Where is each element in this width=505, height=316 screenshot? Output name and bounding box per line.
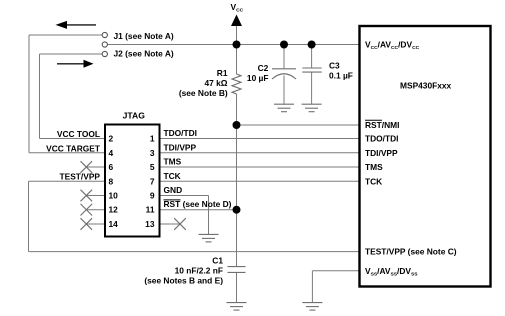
connector J2 circle xyxy=(102,51,107,56)
svg-text:9: 9 xyxy=(150,191,155,201)
ground C2 xyxy=(274,104,294,112)
svg-text:TMS: TMS xyxy=(164,157,182,167)
wire pin6 stub xyxy=(86,166,104,168)
svg-text:TCK: TCK xyxy=(365,176,382,186)
wire RST vertical rail xyxy=(236,125,238,267)
svg-text:TDI/VPP: TDI/VPP xyxy=(365,148,398,158)
wire GND horizontal xyxy=(161,195,209,197)
svg-text:(see Note B): (see Note B) xyxy=(179,88,228,98)
capacitor C3 xyxy=(302,68,321,72)
wire J1 rail xyxy=(28,35,30,153)
svg-text:VCC TARGET: VCC TARGET xyxy=(46,143,101,153)
wire TMS xyxy=(161,166,360,168)
wire RST/NMI to MSP430 xyxy=(237,124,360,126)
no-connect X pin 13 xyxy=(174,218,186,230)
ground C1 xyxy=(227,303,247,311)
svg-text:7: 7 xyxy=(150,176,155,186)
wire TDI/VPP xyxy=(161,152,360,154)
junction node C3 xyxy=(308,41,316,49)
no-connect X pin 14 xyxy=(81,218,93,230)
svg-text:TCK: TCK xyxy=(164,171,181,181)
svg-text:J2 (see Note A): J2 (see Note A) xyxy=(114,48,174,58)
svg-text:C3: C3 xyxy=(329,61,340,71)
connector J1 circle xyxy=(102,32,107,37)
svg-text:TDO/TDI: TDO/TDI xyxy=(164,128,198,138)
svg-text:TMS: TMS xyxy=(365,162,383,172)
node Vcc mid circle xyxy=(102,42,107,47)
svg-text:1: 1 xyxy=(150,134,155,144)
junction node C2 xyxy=(280,41,288,49)
no-connect X pin 12 xyxy=(81,204,93,216)
svg-text:10 nF/2.2 nF: 10 nF/2.2 nF xyxy=(175,266,223,276)
svg-text:5: 5 xyxy=(150,162,155,172)
wire RST (Note D) xyxy=(161,209,237,211)
junction node RST NoteD xyxy=(233,206,241,214)
svg-text:R1: R1 xyxy=(217,68,228,78)
connector JTAG box xyxy=(105,125,160,237)
wire C3 top lead xyxy=(311,45,313,69)
arrow left (to tool) xyxy=(56,21,97,29)
svg-text:3: 3 xyxy=(150,148,155,158)
svg-text:RST (see Note D): RST (see Note D) xyxy=(164,199,232,209)
svg-text:TEST/VPP: TEST/VPP xyxy=(60,172,101,182)
junction node Vcc/R1 xyxy=(233,41,241,49)
ground C3 xyxy=(302,104,322,112)
wire TDO/TDI xyxy=(161,138,360,140)
wire pin14 stub xyxy=(86,223,104,225)
wire R1 top lead xyxy=(236,45,238,75)
wire C2 top lead xyxy=(283,45,285,69)
wire TEST/VPP left rail xyxy=(28,181,30,251)
svg-text:GND: GND xyxy=(164,185,183,195)
svg-text:J1 (see Note A): J1 (see Note A) xyxy=(114,31,174,41)
wire J2 horizontal xyxy=(40,53,103,55)
svg-text:JTAG: JTAG xyxy=(123,111,146,121)
wire J1 horizontal xyxy=(29,34,102,36)
svg-text:C2: C2 xyxy=(258,63,269,73)
wire C2 bottom lead xyxy=(283,76,285,104)
svg-text:MSP430Fxxx: MSP430Fxxx xyxy=(400,81,452,91)
wire pin12 stub xyxy=(86,209,104,211)
arrow right (to target) xyxy=(57,60,94,68)
IC MSP430Fxxx box xyxy=(360,26,491,287)
svg-text:RST/NMI: RST/NMI xyxy=(365,120,399,130)
overbar RST/NMI xyxy=(365,119,382,121)
svg-text:10: 10 xyxy=(109,191,119,201)
resistor R1 xyxy=(232,74,241,94)
wire pin13 stub xyxy=(161,223,181,225)
wire C1 bottom lead xyxy=(236,272,238,302)
svg-text:0.1 µF: 0.1 µF xyxy=(329,70,353,80)
ground Vss xyxy=(302,303,322,311)
overbar RST NoteD xyxy=(164,199,181,201)
wire GND vertical xyxy=(208,196,210,235)
wire Vss horizontal xyxy=(312,270,359,272)
no-connect X pin 6 xyxy=(81,161,93,173)
svg-text:TEST/VPP (see Note C): TEST/VPP (see Note C) xyxy=(365,247,457,257)
wire VCC TOOL xyxy=(40,138,105,140)
wire Vcc rail horizontal xyxy=(108,44,360,46)
svg-text:13: 13 xyxy=(145,219,155,229)
svg-text:(see Notes B and E): (see Notes B and E) xyxy=(144,276,223,286)
wire Vss vertical xyxy=(311,271,313,302)
capacitor C2 xyxy=(272,69,296,79)
svg-text:2: 2 xyxy=(109,134,114,144)
svg-text:TDO/TDI: TDO/TDI xyxy=(365,134,399,144)
svg-text:47 kΩ: 47 kΩ xyxy=(204,78,227,88)
svg-text:11: 11 xyxy=(146,205,155,215)
svg-text:8: 8 xyxy=(109,176,114,186)
wire TEST/VPP bottom run xyxy=(29,251,360,253)
wire C3 bottom lead xyxy=(311,72,313,104)
svg-text:10 µF: 10 µF xyxy=(247,73,269,83)
wire TEST/VPP from pin8 xyxy=(29,180,105,182)
svg-text:4: 4 xyxy=(109,148,114,158)
svg-text:VCC TOOL: VCC TOOL xyxy=(57,129,100,139)
svg-text:TDI/VPP: TDI/VPP xyxy=(164,142,197,152)
wire TCK xyxy=(161,180,360,182)
wire pin10 stub xyxy=(86,195,104,197)
svg-text:14: 14 xyxy=(109,219,119,229)
wire J2 rail xyxy=(39,54,41,139)
capacitor C1 xyxy=(228,267,246,273)
junction node RST/NMI xyxy=(233,121,241,129)
wire R1 bottom lead to RST node xyxy=(236,94,238,125)
wire Vcc stem xyxy=(236,25,238,45)
svg-text:6: 6 xyxy=(109,162,114,172)
ground JTAG GND xyxy=(199,234,219,242)
no-connect X pin 10 xyxy=(81,190,93,202)
power Vcc arrow xyxy=(231,15,242,27)
wire VCC TARGET xyxy=(29,152,104,154)
svg-text:12: 12 xyxy=(109,205,119,215)
svg-text:C1: C1 xyxy=(212,255,223,265)
